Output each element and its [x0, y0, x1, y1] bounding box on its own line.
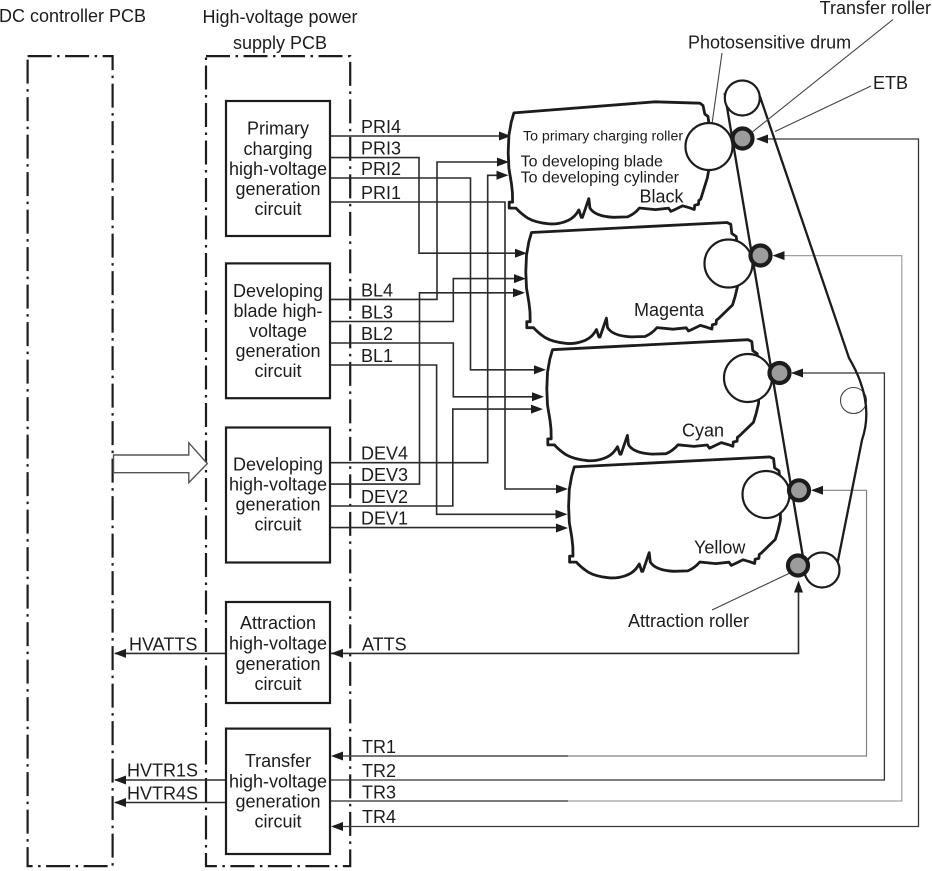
svg-text:Developing: Developing: [233, 281, 323, 301]
svg-text:HVTR1S: HVTR1S: [127, 761, 198, 781]
svg-text:circuit: circuit: [254, 199, 301, 219]
svg-text:Developing: Developing: [233, 455, 323, 475]
svg-text:Transfer roller: Transfer roller: [820, 0, 931, 18]
svg-text:To primary charging roller: To primary charging roller: [523, 129, 683, 145]
svg-text:To developing blade: To developing blade: [521, 154, 663, 171]
svg-text:PRI4: PRI4: [361, 117, 401, 137]
svg-text:DEV2: DEV2: [361, 487, 408, 507]
svg-text:TR3: TR3: [362, 783, 396, 803]
svg-text:TR2: TR2: [362, 761, 396, 781]
svg-text:BL3: BL3: [361, 303, 393, 323]
svg-text:Primary: Primary: [247, 119, 309, 139]
svg-text:high-voltage: high-voltage: [229, 475, 327, 495]
svg-text:Attraction: Attraction: [240, 613, 316, 633]
svg-text:high-voltage: high-voltage: [229, 633, 327, 653]
svg-text:generation: generation: [235, 792, 320, 812]
svg-text:generation: generation: [235, 654, 320, 674]
svg-text:Cyan: Cyan: [682, 420, 724, 440]
svg-text:blade high-: blade high-: [233, 301, 322, 321]
svg-text:circuit: circuit: [254, 361, 301, 381]
svg-text:charging: charging: [243, 139, 312, 159]
svg-text:To developing cylinder: To developing cylinder: [521, 170, 680, 187]
svg-text:TR4: TR4: [362, 807, 396, 827]
svg-text:circuit: circuit: [254, 674, 301, 694]
svg-text:PRI3: PRI3: [361, 139, 401, 159]
svg-text:generation: generation: [235, 341, 320, 361]
svg-text:DEV1: DEV1: [361, 509, 408, 529]
svg-text:PRI2: PRI2: [361, 159, 401, 179]
svg-text:DC controller PCB: DC controller PCB: [0, 6, 146, 26]
svg-text:Yellow: Yellow: [694, 538, 746, 558]
svg-text:high-voltage: high-voltage: [229, 159, 327, 179]
svg-text:BL1: BL1: [361, 346, 393, 366]
svg-text:HVATTS: HVATTS: [129, 635, 197, 655]
svg-text:generation: generation: [235, 495, 320, 515]
svg-text:high-voltage: high-voltage: [229, 772, 327, 792]
svg-text:DEV4: DEV4: [361, 444, 408, 464]
svg-text:Magenta: Magenta: [634, 300, 705, 320]
svg-text:TR1: TR1: [362, 737, 396, 757]
svg-text:circuit: circuit: [254, 515, 301, 535]
svg-text:DEV3: DEV3: [361, 465, 408, 485]
svg-text:circuit: circuit: [254, 812, 301, 832]
svg-text:PRI1: PRI1: [361, 183, 401, 203]
svg-text:High-voltage power: High-voltage power: [202, 7, 357, 27]
svg-text:Transfer: Transfer: [245, 751, 311, 771]
svg-text:ETB: ETB: [873, 73, 908, 93]
svg-text:voltage: voltage: [249, 321, 307, 341]
svg-text:generation: generation: [235, 179, 320, 199]
svg-text:Attraction roller: Attraction roller: [628, 611, 749, 631]
svg-text:BL2: BL2: [361, 324, 393, 344]
svg-text:HVTR4S: HVTR4S: [127, 784, 198, 804]
svg-text:supply PCB: supply PCB: [233, 33, 327, 53]
svg-text:BL4: BL4: [361, 280, 393, 300]
svg-text:Black: Black: [640, 187, 685, 207]
svg-text:Photosensitive drum: Photosensitive drum: [688, 33, 851, 53]
svg-text:ATTS: ATTS: [362, 635, 407, 655]
